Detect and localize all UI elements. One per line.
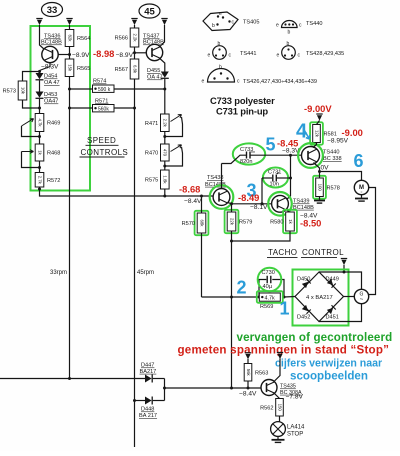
svg-text:TS426,427,430÷434,436÷439: TS426,427,430÷434,436÷439 — [243, 79, 317, 85]
wire R570 down to stop rail — [201, 233, 203, 297]
transistor TS425 BC308A — [261, 380, 277, 396]
svg-text:TS405: TS405 — [243, 20, 259, 26]
transistor TS436 BC148B — [42, 46, 58, 62]
svg-text:R580: R580 — [270, 220, 283, 226]
wire C733 left lead — [222, 155, 247, 163]
wire 33rpm rail down — [69, 77, 71, 379]
junction R579/R580 — [230, 240, 233, 243]
capacitor C730 40u — [258, 268, 282, 292]
wire TS439 base node to R579 — [231, 204, 233, 212]
wire lamp to ground — [277, 436, 279, 439]
svg-text:-9.00: -9.00 — [342, 127, 363, 138]
junction R471 wiper — [163, 135, 166, 138]
green annotation box around bridge — [293, 270, 349, 326]
svg-text:−8.9V: −8.9V — [72, 52, 90, 59]
svg-text:−8.9V: −8.9V — [116, 52, 134, 59]
svg-text:LA414: LA414 — [287, 425, 305, 431]
wire C733 right to TS440 base — [251, 154, 302, 156]
wire TS436 emitter down — [40, 63, 51, 73]
resistor R578 — [313, 176, 340, 199]
svg-text:**: ** — [251, 151, 255, 157]
wire C731 left riser — [261, 178, 263, 204]
svg-text:R468: R468 — [47, 151, 60, 157]
wire arrow to R564 — [69, 25, 71, 30]
wire 0V to motor — [320, 172, 362, 181]
resistor R574 590k — [93, 79, 115, 94]
wire R563 to base wire — [247, 381, 249, 388]
potentiometer R468 — [35, 144, 60, 161]
wire TS439 collector riser — [287, 155, 291, 199]
svg-text:D447: D447 — [141, 363, 154, 369]
wire TS438 collector up to C733 node — [221, 164, 223, 189]
svg-text:560k: 560k — [98, 107, 109, 113]
svg-text:TS439: TS439 — [293, 199, 309, 205]
svg-text:TS435: TS435 — [280, 384, 296, 390]
green annotation box around 33 speed section — [31, 26, 91, 191]
wire R571 left — [70, 107, 93, 109]
wire node to R578 — [319, 172, 321, 179]
resistor R573 — [3, 81, 27, 100]
resistor R571 560k — [93, 99, 115, 113]
svg-text:2.7k: 2.7k — [37, 176, 42, 185]
wire R562 to lamp — [279, 416, 281, 422]
svg-text:vervangen of gecontroleerd: vervangen of gecontroleerd — [237, 331, 393, 344]
resistor R581 — [310, 122, 337, 144]
svg-text:10n: 10n — [270, 182, 279, 188]
supply arrow 33 left — [36, 19, 42, 26]
wiper arrow R470 — [171, 145, 182, 152]
svg-text:OA 47: OA 47 — [44, 80, 60, 86]
wire TS440 emitter to 0V node — [314, 163, 320, 172]
svg-text:2.2k: 2.2k — [163, 119, 168, 128]
svg-text:D454: D454 — [44, 74, 57, 80]
svg-text:−8.4V: −8.4V — [184, 198, 202, 205]
transistor TS437 BC148B — [146, 44, 162, 60]
svg-text:C731: C731 — [268, 170, 281, 176]
svg-text:5: 5 — [265, 135, 275, 155]
svg-text:R562: R562 — [260, 405, 273, 411]
wire tacho arrow to bridge rail — [343, 265, 345, 272]
svg-text:45rpm: 45rpm — [137, 270, 154, 276]
junction 45 rail D448 — [133, 399, 136, 402]
junction R570 top — [200, 195, 203, 198]
svg-text:C730: C730 — [262, 270, 275, 276]
wiper arrow R471 — [171, 115, 182, 122]
junction R572 bottom — [38, 188, 41, 191]
svg-text:−7.8V: −7.8V — [286, 394, 304, 401]
svg-text:D450: D450 — [297, 277, 310, 283]
junction 33 rail to stop wire — [68, 377, 71, 380]
wire diode bracket — [164, 379, 166, 401]
wire R574 left — [70, 88, 93, 90]
wire R580 bottom join — [232, 231, 291, 241]
diode D455 — [161, 72, 169, 79]
junction R468 wiper — [38, 166, 41, 169]
svg-text:1.8k: 1.8k — [163, 175, 168, 184]
svg-text:-8.50: -8.50 — [300, 218, 321, 229]
svg-text:TS428,429,435: TS428,429,435 — [306, 51, 344, 57]
svg-text:R471: R471 — [145, 121, 158, 127]
capacitor C733 820n — [233, 143, 265, 165]
supply arrow -9V supply into R581 — [316, 114, 322, 121]
svg-text:68k: 68k — [199, 220, 204, 228]
svg-text:TS440: TS440 — [323, 150, 339, 156]
junction tacho arrow — [343, 271, 346, 274]
wire bridge top to generator — [319, 272, 362, 289]
wire arrow to R566 — [134, 25, 136, 28]
svg-text:R565: R565 — [77, 66, 90, 72]
junction C731 left — [261, 202, 264, 205]
svg-text:cijfers verwijzen naar: cijfers verwijzen naar — [275, 358, 382, 370]
svg-text:R578: R578 — [327, 185, 340, 191]
svg-text:D453: D453 — [44, 92, 57, 98]
svg-text:R569: R569 — [260, 304, 273, 310]
svg-text:b: b — [212, 23, 215, 29]
svg-text:CONTROLS: CONTROLS — [81, 148, 129, 157]
svg-text:4: 4 — [296, 121, 308, 143]
svg-text:R572: R572 — [47, 178, 60, 184]
svg-text:SPEED: SPEED — [87, 136, 116, 145]
resistor R580 — [270, 210, 297, 233]
svg-text:33rpm: 33rpm — [50, 270, 67, 276]
wire C731 left plate — [262, 177, 272, 179]
wire R468 to R572 — [39, 161, 41, 173]
supply arrow 45 left — [131, 19, 137, 26]
wire TS437 collector to D455 — [160, 59, 165, 72]
svg-text:6: 6 — [353, 151, 363, 171]
supply arrow tacho feed — [341, 259, 347, 266]
wiper arrow R468 — [22, 150, 34, 154]
wire R469 wiper loop — [22, 126, 40, 137]
diode D448 — [145, 397, 152, 405]
svg-text:R570: R570 — [182, 221, 195, 227]
blue arrow from 4 to TS440 — [304, 129, 310, 139]
diode D449 — [327, 279, 336, 288]
wire R471 wiper loop — [165, 117, 183, 137]
junction R574 right — [163, 88, 166, 91]
node TS436 base / -8.9V — [68, 53, 71, 56]
svg-text:R566: R566 — [115, 36, 128, 42]
svg-text:OA 47: OA 47 — [147, 75, 163, 81]
svg-text:40µ: 40µ — [263, 284, 273, 290]
junction R574 tap — [68, 88, 71, 91]
svg-text:D451: D451 — [326, 315, 339, 321]
node TS437 base / -8.9V — [133, 51, 136, 54]
wire D455 to R471 — [164, 79, 166, 114]
svg-text:R469: R469 — [47, 121, 60, 127]
svg-text:b: b — [287, 41, 290, 47]
bridge diamond wires — [295, 272, 344, 322]
svg-text:R564: R564 — [77, 36, 90, 42]
svg-text:2.2k: 2.2k — [132, 33, 137, 42]
wire C730 right riser — [272, 280, 284, 298]
wire stop rail into RC — [202, 296, 260, 298]
transistor TS438 BC148B — [210, 185, 234, 209]
svg-text:82k: 82k — [67, 35, 72, 43]
wire C731 right plate — [277, 177, 291, 179]
ground lamp — [272, 440, 285, 443]
svg-text:0V: 0V — [321, 165, 330, 172]
wire D448 out — [153, 400, 165, 402]
wire TS425 emitter to R562 — [275, 394, 280, 399]
svg-text:gemeten spanningen in stand “S: gemeten spanningen in stand “Stop” — [178, 344, 390, 357]
junction C731 right — [289, 177, 292, 180]
ground motor — [355, 199, 368, 202]
node 33 bubble — [42, 3, 63, 17]
junction R571 tap — [68, 107, 71, 110]
resistor R565 — [65, 59, 90, 77]
svg-text:CONTROL: CONTROL — [302, 248, 344, 257]
svg-text:e: e — [219, 11, 222, 17]
svg-text:-8.68: -8.68 — [179, 184, 200, 195]
wire R564 to R565 — [69, 47, 71, 60]
wire bridge right to generator left — [344, 296, 355, 298]
wire R579 bottom long rail to TS425 base — [231, 231, 233, 388]
svg-text:820n: 820n — [240, 159, 252, 165]
svg-text:100: 100 — [317, 184, 322, 192]
supply arrow 45 right — [161, 19, 167, 26]
wire D453 to R469 — [39, 99, 41, 114]
ground R578 — [314, 201, 325, 204]
potentiometer R469 — [35, 114, 60, 132]
svg-text:6.8k: 6.8k — [132, 65, 137, 74]
svg-text:TS441: TS441 — [240, 51, 256, 57]
wire TS438 emitter to TS439 base — [228, 203, 272, 204]
svg-text:R567: R567 — [115, 67, 128, 73]
svg-text:D455: D455 — [147, 68, 160, 74]
resistor R563 — [244, 364, 268, 382]
svg-text:−8.95V: −8.95V — [327, 138, 349, 145]
resistor R564 — [65, 30, 90, 47]
svg-text:4.7k: 4.7k — [265, 296, 275, 302]
resistor R569 4.7k — [257, 291, 283, 310]
svg-text:BA 217: BA 217 — [139, 413, 157, 419]
wire R471 to R470 — [164, 132, 166, 145]
svg-text:10k: 10k — [20, 87, 25, 95]
junction RC left — [258, 296, 261, 299]
svg-text:BC 338: BC 338 — [323, 156, 342, 162]
wire R573 bottom bracket — [23, 100, 40, 108]
wire RC to bridge left — [284, 296, 295, 299]
wire R571 right — [114, 107, 135, 109]
capacitor C731 10n — [263, 168, 288, 188]
svg-text:R571: R571 — [95, 99, 108, 105]
junction R573 top — [38, 70, 41, 73]
resistor R570 — [182, 211, 209, 235]
wire 45 rail to D448 — [135, 400, 146, 402]
svg-text:C733 polyester: C733 polyester — [210, 95, 275, 106]
wire rail to R570 — [201, 196, 203, 213]
svg-text:e: e — [208, 53, 211, 59]
svg-text:−8.1V: −8.1V — [250, 204, 268, 211]
wire base rail y196 to TS438 — [40, 187, 213, 196]
svg-text:e: e — [276, 23, 279, 29]
wire C730 left riser — [259, 280, 266, 298]
svg-text:56k: 56k — [246, 369, 251, 377]
wire TS436 base to R564/R565 node — [58, 54, 70, 56]
svg-text:1: 1 — [279, 299, 289, 319]
resistor R575 — [145, 170, 169, 189]
potentiometer R471 — [145, 114, 169, 132]
wire to TS425 base — [165, 387, 262, 389]
svg-text:D452: D452 — [297, 315, 310, 321]
wire R581 to TS440 collector — [313, 143, 317, 148]
node 45 bubble — [139, 4, 160, 18]
svg-text:4.7k: 4.7k — [37, 118, 42, 127]
svg-text:b: b — [218, 41, 221, 47]
wire TS425 collector up — [275, 359, 281, 382]
svg-text:e: e — [202, 79, 205, 85]
resistor R566 — [115, 28, 139, 47]
wire R573 top bracket — [23, 72, 40, 82]
pinout TS405 — [203, 11, 259, 31]
wire bridge bottom to generator — [319, 304, 362, 322]
transistor TS440 BC338 — [298, 143, 323, 168]
svg-text:e: e — [277, 53, 280, 59]
svg-text:45: 45 — [144, 6, 155, 17]
diode D447 — [145, 375, 152, 383]
junction diode bracket tap — [163, 387, 166, 390]
wire R574 right — [114, 88, 165, 90]
svg-text:scoopbeelden: scoopbeelden — [290, 370, 368, 383]
resistor R572 — [35, 173, 60, 188]
wire R468 wiper loop — [22, 152, 40, 168]
junction R573 bottom — [38, 107, 41, 110]
svg-text:R574: R574 — [93, 79, 106, 85]
junction R563 bottom — [247, 387, 250, 390]
svg-text:-8.49: -8.49 — [238, 192, 259, 203]
wire arrow to R563 — [247, 359, 249, 364]
svg-text:D449: D449 — [326, 277, 339, 283]
svg-text:470: 470 — [163, 149, 168, 157]
svg-text:4 x BA217: 4 x BA217 — [306, 295, 333, 301]
svg-text:b: b — [288, 30, 291, 36]
svg-text:D448: D448 — [141, 407, 154, 413]
supply arrow 33 right — [66, 19, 72, 26]
wire stop line from left edge — [0, 378, 145, 380]
wire R578 to ground — [319, 197, 321, 200]
svg-text:STOP: STOP — [287, 432, 303, 438]
svg-text:TACHO: TACHO — [268, 248, 297, 257]
transistor TS439 BC148B — [268, 192, 292, 216]
generator (tacho) — [354, 289, 368, 303]
pinout TS428,429,435 — [277, 41, 345, 59]
wire D454 to D453 — [39, 81, 41, 92]
junction R571 right — [133, 107, 136, 110]
svg-text:33: 33 — [47, 5, 58, 16]
svg-text:150: 150 — [277, 404, 282, 412]
diode D454 — [36, 73, 44, 80]
pinout TS441 — [208, 41, 257, 59]
svg-text:R470: R470 — [145, 151, 158, 157]
resistor R562 — [260, 399, 283, 417]
svg-text:R579: R579 — [239, 220, 252, 226]
supply arrow supply arrow R563 — [245, 353, 251, 360]
wire motor to ground — [361, 195, 363, 198]
pinout TS426,427,430-434,436-439 — [202, 65, 317, 86]
junction R469 wiper — [38, 135, 41, 138]
wire supply arrow to R581 — [317, 121, 320, 125]
diode D450 — [302, 279, 311, 288]
svg-text:OA47: OA47 — [44, 99, 58, 105]
svg-text:b: b — [219, 65, 222, 71]
diode D453 — [36, 92, 44, 99]
wire D447 out — [153, 378, 165, 380]
lamp LA414 STOP — [271, 422, 286, 437]
diode D452 — [302, 305, 311, 314]
pinout TS440 — [276, 20, 322, 35]
svg-text:12k: 12k — [314, 130, 319, 138]
junction 0V node — [318, 170, 321, 173]
resistor R567 — [115, 59, 139, 79]
wire TS437 emitter from 45 arrow — [160, 25, 165, 47]
wire TS439 emitter to R580 — [286, 209, 290, 212]
wire TS437 base — [135, 52, 147, 54]
svg-text:BA217: BA217 — [140, 369, 157, 375]
svg-text:22k: 22k — [229, 218, 234, 226]
wiper arrow R469 — [22, 119, 34, 126]
wire R470 to R575 — [164, 161, 166, 170]
svg-text:C731 pin-up: C731 pin-up — [216, 106, 268, 117]
junction long rail — [230, 296, 233, 299]
svg-text:-8.98: -8.98 — [93, 48, 114, 59]
svg-text:-9.00V: -9.00V — [304, 103, 332, 114]
wire R470 wiper loop — [165, 147, 183, 166]
wire R469 to R468 — [39, 132, 41, 145]
junction long rail at base wire — [230, 387, 233, 390]
supply arrow supply arrow TS425 collector — [277, 353, 283, 360]
svg-text:2: 2 — [236, 278, 246, 298]
svg-text:−8.3V: −8.3V — [41, 63, 59, 70]
wire TS436 collector from 33 arrow — [40, 25, 45, 50]
svg-text:−8.4V: −8.4V — [239, 391, 257, 398]
svg-text:~: ~ — [360, 297, 364, 303]
svg-text:15k: 15k — [67, 64, 72, 72]
svg-text:TS440: TS440 — [306, 21, 322, 27]
junction TS439 collector node — [289, 154, 292, 157]
junction R470 wiper — [163, 165, 166, 168]
junction R575 bottom — [163, 195, 166, 198]
wire 45rpm rail down — [134, 79, 136, 447]
wire motor to generator long run — [368, 188, 376, 295]
junction R579 top — [230, 202, 233, 205]
svg-text:R573: R573 — [3, 89, 16, 95]
resistor R579 — [225, 210, 253, 233]
junction RC right — [283, 296, 286, 299]
svg-text:R575: R575 — [145, 178, 158, 184]
svg-text:R563: R563 — [255, 370, 268, 376]
potentiometer R470 — [145, 144, 169, 161]
svg-text:BC148B: BC148B — [41, 40, 62, 46]
diode D451 — [327, 305, 336, 314]
wire R566 to R567 — [134, 47, 136, 59]
svg-text:590 k: 590 k — [98, 87, 111, 93]
motor M — [354, 180, 368, 194]
wire R575 to base rail — [164, 189, 166, 196]
